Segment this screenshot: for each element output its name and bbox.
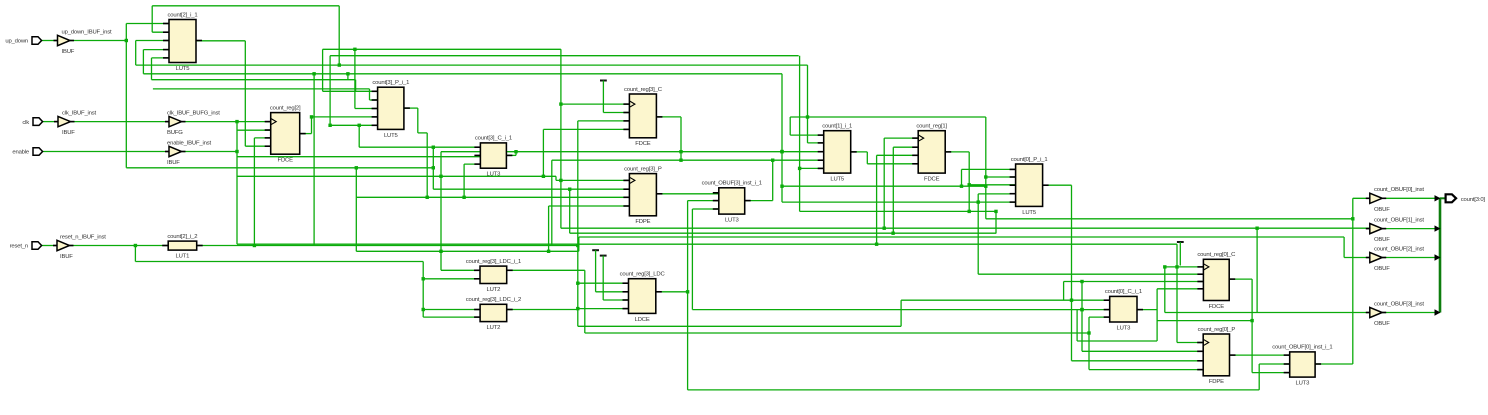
wire to count[3]_P_i_1 pin1	[323, 90, 378, 92]
junction	[798, 167, 801, 170]
LUT2 count_reg[3]_LDC_i_2	[466, 297, 521, 331]
svg-text:count_reg[0]_P: count_reg[0]_P	[1198, 327, 1236, 333]
wire	[1156, 289, 1158, 341]
wire	[354, 49, 356, 108]
const0 tie above LDCE 2	[600, 256, 607, 300]
svg-text:count_OBUF[0]_inst: count_OBUF[0]_inst	[1374, 187, 1424, 193]
wire to LUT2 i_2 pin2	[423, 316, 480, 318]
junction	[346, 72, 349, 75]
wire	[876, 155, 878, 244]
svg-text:LUT2: LUT2	[487, 325, 501, 331]
svg-text:LUT5: LUT5	[1022, 210, 1037, 216]
wire	[329, 56, 331, 126]
junction	[426, 196, 429, 199]
svg-text:FDCE: FDCE	[278, 158, 294, 164]
wire	[680, 117, 682, 160]
wire run y321	[1157, 320, 1252, 322]
junction	[968, 183, 971, 186]
svg-text:enable_IBUF_inst: enable_IBUF_inst	[167, 140, 211, 146]
wire	[985, 117, 987, 219]
wire enable port to IBUF	[42, 151, 169, 153]
junction	[422, 308, 425, 311]
svg-text:OBUF: OBUF	[1374, 237, 1390, 243]
wire	[691, 209, 693, 310]
svg-text:count[0]_C_i_1: count[0]_C_i_1	[1105, 289, 1142, 295]
wire	[555, 176, 557, 180]
junction	[1080, 308, 1083, 311]
svg-text:clk: clk	[22, 120, 29, 126]
wire OBUF3 out	[1382, 312, 1440, 314]
junction	[679, 159, 682, 162]
wire to count_reg[0]_P C	[1177, 342, 1203, 344]
buffer count_OBUF[2]_inst	[1366, 246, 1425, 272]
junction clk	[235, 120, 238, 123]
svg-text:count_reg[3]_LDC_i_1: count_reg[3]_LDC_i_1	[466, 259, 521, 265]
junction	[514, 150, 517, 153]
wire	[584, 270, 586, 333]
wire	[578, 237, 580, 251]
buffer clk_IBUF_BUFG_inst	[165, 110, 220, 136]
wire to count_reg[0]_P pin2	[1082, 350, 1203, 352]
junction	[960, 185, 963, 188]
svg-text:FDPE: FDPE	[635, 219, 650, 225]
wire reset lower run	[135, 261, 423, 263]
svg-text:FDPE: FDPE	[1209, 379, 1224, 385]
wire	[463, 164, 465, 197]
wire OBUF1 out	[1382, 228, 1440, 230]
svg-text:count[1]_i_1: count[1]_i_1	[822, 124, 852, 130]
wire count_reg[2] Q	[300, 133, 312, 135]
svg-text:IBUF: IBUF	[62, 49, 75, 55]
wire count_reg[3]_P Q to LUT3	[656, 193, 718, 195]
wire const to LDCE pin2	[596, 291, 629, 293]
wire to count[3]_P_i_1 pin5	[330, 124, 378, 126]
wire	[432, 147, 434, 189]
wire to count_reg[2] D	[245, 145, 270, 147]
wire long run y219	[986, 218, 1353, 220]
FDCE count_reg[1]	[912, 124, 951, 183]
wire to count_reg[2] CLR	[254, 137, 270, 139]
buffer up_down_IBUF_inst	[54, 29, 113, 55]
junction	[771, 159, 774, 162]
junction	[559, 179, 562, 182]
port enable	[12, 148, 42, 156]
wire	[338, 6, 340, 65]
wire	[253, 138, 255, 246]
buffer count_OBUF[3]_inst	[1366, 301, 1425, 327]
wire	[687, 201, 689, 390]
LUT5 count[3]_P_i_1	[372, 80, 410, 139]
svg-text:IBUF: IBUF	[60, 254, 73, 260]
wire run y117	[790, 116, 986, 118]
port up_down	[5, 37, 41, 45]
wire long run y65	[136, 64, 808, 66]
wire run y152	[441, 151, 824, 153]
wire long run y310	[692, 309, 1109, 311]
wire to count[2]_i_1 pin2	[152, 31, 169, 33]
wire	[781, 74, 783, 202]
wire clk down right	[1176, 244, 1178, 342]
svg-text:OBUF: OBUF	[1374, 266, 1390, 272]
junction	[576, 282, 579, 285]
junction	[235, 150, 238, 153]
wire	[151, 6, 153, 32]
FDCE count_reg[3]_C	[623, 87, 662, 147]
wire	[977, 194, 979, 274]
wire	[440, 152, 442, 271]
wire riser reg1 C	[883, 138, 885, 228]
junction	[353, 48, 356, 51]
FDCE count_reg[2]	[265, 105, 306, 163]
junction	[338, 63, 341, 66]
wire to count_reg[0]_C C	[1165, 266, 1204, 268]
wire	[789, 117, 791, 135]
svg-text:LUT3: LUT3	[725, 218, 740, 224]
svg-text:count_OBUF[3]_inst_i_1: count_OBUF[3]_inst_i_1	[702, 181, 762, 187]
FDPE count_reg[3]_P	[623, 166, 662, 225]
wire count_reg[0]_P Q to LUT pin1	[1230, 354, 1290, 356]
wire count_reg[0]_C Q	[1229, 278, 1252, 280]
wire	[551, 160, 553, 245]
svg-text:enable: enable	[12, 150, 30, 156]
wire	[968, 152, 970, 212]
wire up_down IBUF output	[71, 40, 127, 42]
wire to count[1]_i_1 pin1	[790, 134, 824, 136]
wire run y202	[782, 201, 1016, 203]
wire long run y333	[585, 332, 1089, 334]
junction	[1351, 217, 1354, 220]
wire	[548, 206, 550, 251]
junction	[686, 290, 689, 293]
wire	[358, 125, 360, 147]
junction	[780, 150, 783, 153]
buffer reset_n_IBUF_inst	[53, 234, 106, 260]
svg-text:IBUF: IBUF	[62, 130, 75, 136]
wire	[900, 300, 902, 326]
wire LUT2 i_1 out	[507, 269, 585, 271]
wire to count_reg[1] D	[867, 163, 918, 165]
bus tap arrow	[1435, 309, 1441, 315]
wire to count[3]_C_i_1 pin2	[237, 156, 480, 158]
wire long run y74	[143, 73, 782, 75]
wire const to LDCE pin3	[603, 299, 628, 301]
wire to count[2]_i_1 pin1	[126, 23, 169, 25]
wire count[3]_P_i_1 out	[404, 107, 418, 109]
wire run y341	[1077, 340, 1157, 342]
wire vertical x314	[313, 74, 315, 246]
const0 tie above LDCE	[592, 250, 599, 292]
svg-text:LUT5: LUT5	[830, 177, 845, 183]
LUT3 count_OBUF[0]_inst_i_1	[1272, 345, 1332, 387]
wire enable IBUF out	[183, 151, 238, 153]
wire to count[1]_i_1 pin5	[800, 167, 824, 169]
svg-text:IBUF: IBUF	[167, 160, 180, 166]
port count[3:0]	[1446, 194, 1486, 203]
junction	[968, 210, 971, 213]
junction	[439, 175, 442, 178]
wire count_reg[3]_C Q	[656, 116, 681, 118]
buffer count_OBUF[1]_inst	[1366, 217, 1425, 243]
wire to count[2]_i_1 pin4	[143, 49, 169, 51]
bus tap arrow	[1435, 254, 1441, 260]
wire reset IBUF out	[70, 245, 168, 247]
svg-text:LUT3: LUT3	[1117, 325, 1132, 331]
wire LUT2 i_2 out	[507, 309, 578, 311]
wire to LUT2 i_1 pin2	[423, 278, 480, 280]
wire	[1251, 279, 1253, 373]
wire count[2]_i_2 out run	[197, 245, 578, 247]
wire to count[0]_P_i_1 pin1	[962, 168, 1016, 170]
wire to count[2]_i_1 pin5	[152, 57, 170, 59]
junction	[1080, 280, 1083, 283]
wire	[347, 74, 349, 80]
svg-text:LDCE: LDCE	[635, 317, 650, 323]
wire	[134, 246, 136, 262]
svg-text:FDCE: FDCE	[1209, 304, 1225, 310]
junction	[883, 227, 886, 230]
wire	[151, 58, 153, 80]
wire OBUF0 LUT out	[1315, 363, 1353, 365]
wire	[355, 168, 357, 252]
wire	[418, 132, 427, 134]
svg-text:FDCE: FDCE	[924, 177, 940, 183]
wire up_down port to IBUF	[42, 40, 58, 42]
wire count[1]_i_1 out	[851, 151, 868, 153]
FDPE count_reg[0]_P	[1197, 327, 1235, 385]
wire clk long run	[237, 243, 1177, 245]
svg-text:FDCE: FDCE	[635, 141, 651, 147]
bus count[3:0]	[1439, 198, 1442, 312]
wire to count_reg[3]_P D	[549, 205, 630, 207]
wire	[995, 211, 997, 233]
const0 tie above count_reg[0]_C	[1177, 242, 1184, 266]
junction	[568, 188, 571, 191]
junction	[439, 250, 442, 253]
junction	[1087, 331, 1090, 334]
wire LUT3 out	[745, 200, 773, 202]
svg-text:count_OBUF[1]_inst: count_OBUF[1]_inst	[1374, 217, 1424, 223]
wire to count_reg[0]_P pin3	[1072, 360, 1204, 362]
svg-text:reset_n: reset_n	[10, 244, 28, 250]
junction	[134, 244, 137, 247]
wire to count_reg[0]_C CE	[978, 273, 1203, 275]
wire run y160	[552, 159, 824, 161]
junction	[1163, 265, 1166, 268]
junction	[253, 244, 256, 247]
port clk	[22, 118, 42, 126]
svg-text:count_reg[1]: count_reg[1]	[916, 124, 947, 130]
wire bus to port	[1440, 197, 1446, 199]
svg-text:count[2]_i_2: count[2]_i_2	[167, 234, 197, 240]
wire	[807, 65, 809, 143]
junction	[312, 72, 315, 75]
wire to count_reg[3]_C C	[561, 103, 630, 105]
wire	[542, 129, 544, 176]
junction up_down	[125, 39, 128, 42]
wire to count_reg[0]_C pin3	[1064, 281, 1204, 283]
wire	[569, 189, 571, 233]
wire LDCE Q	[656, 291, 688, 293]
wire	[369, 89, 371, 100]
junction	[432, 166, 435, 169]
wire CLR trunk	[577, 121, 579, 326]
wire	[311, 117, 313, 134]
wire to OBUF0 LUT pin3	[1252, 372, 1290, 374]
wire to OBUF3	[1165, 312, 1370, 314]
svg-text:count_reg[3]_C: count_reg[3]_C	[624, 87, 663, 93]
wire to count[2]_i_1 pin3	[136, 40, 169, 42]
wire long run y237 to OBUF2	[579, 236, 1344, 238]
wire BUFG out to count_reg[2] C	[183, 121, 271, 123]
junction	[547, 250, 550, 253]
wire to count[0]_P_i_1 pin3	[969, 184, 1015, 186]
wire	[426, 133, 428, 197]
LUT3 count[3]_C_i_1	[474, 136, 512, 178]
junction	[1255, 227, 1258, 230]
wire to count_reg[1] CE	[893, 146, 918, 148]
junction	[328, 124, 331, 127]
bus tap arrow	[1435, 195, 1441, 201]
wire	[142, 50, 144, 74]
wire	[1081, 282, 1083, 352]
junction	[875, 243, 878, 246]
wire long run y228 to OBUF1	[561, 227, 1370, 229]
svg-text:OBUF: OBUF	[1374, 321, 1390, 327]
junction	[358, 124, 361, 127]
svg-text:count_reg[3]_P: count_reg[3]_P	[624, 166, 662, 172]
wire run y80	[152, 79, 356, 81]
wire const to count_reg[3]_C CE	[603, 112, 629, 114]
wire to count_reg[3]_P pin3	[356, 196, 629, 198]
svg-text:BUFG: BUFG	[167, 130, 183, 136]
LUT5 count[0]_P_i_1	[1010, 157, 1049, 216]
wire to count_reg[2] CE	[237, 129, 271, 131]
junction	[977, 200, 980, 203]
wire to count[0]_C_i_1 pin1	[901, 299, 1110, 301]
LUT3 count[0]_C_i_1	[1104, 289, 1143, 331]
wire to count[3]_P_i_1 pin3	[355, 108, 378, 110]
junction	[891, 232, 894, 235]
wire	[1256, 228, 1258, 312]
wire to count[0]_C_i_1 pin3	[1089, 316, 1110, 318]
FDCE count_reg[0]_C	[1197, 252, 1236, 310]
junction	[1250, 319, 1253, 322]
wire count[0]_P_i_1 out	[1043, 184, 1072, 186]
wire OBUF0 out	[1382, 197, 1440, 199]
LDCE count_reg[3]_LDC	[620, 272, 666, 323]
buffer enable_IBUF_inst	[165, 140, 211, 166]
svg-text:count[0]_P_i_1: count[0]_P_i_1	[1011, 157, 1048, 163]
junction	[1080, 308, 1083, 311]
junction	[432, 146, 435, 149]
wire to count[1]_i_1 pin2	[808, 142, 824, 144]
buffer clk_IBUF_inst	[54, 110, 97, 136]
svg-text:count_reg[2]: count_reg[2]	[270, 105, 301, 111]
wire run y89	[153, 88, 370, 90]
svg-text:up_down_IBUF_inst: up_down_IBUF_inst	[62, 29, 113, 35]
wire to LUT3 pin2	[688, 200, 719, 202]
wire run y168	[126, 167, 433, 169]
junction	[576, 307, 579, 310]
wire	[1088, 317, 1090, 370]
wire run y251	[356, 250, 579, 252]
svg-text:count[2]_i_1: count[2]_i_1	[168, 12, 198, 18]
wire run y49	[323, 48, 561, 50]
wire bottom long run y390	[688, 389, 1260, 391]
junction	[355, 166, 358, 169]
wire to count[3]_P_i_1 pin2	[370, 99, 378, 101]
wire top run	[152, 5, 339, 7]
wire	[1076, 310, 1078, 341]
wire	[355, 80, 357, 92]
junction	[679, 150, 682, 153]
wire to LUT3 pin3	[692, 208, 718, 210]
svg-text:count_reg[3]_LDC: count_reg[3]_LDC	[620, 272, 666, 278]
wire to count_reg[1] CLR	[877, 154, 919, 156]
wire count[0]_C_i_1 out	[1137, 309, 1157, 311]
wire run y233	[570, 232, 997, 234]
wire to count_reg[3]_P CE	[433, 188, 629, 190]
svg-text:LUT2: LUT2	[487, 287, 501, 293]
svg-text:count[3]_C_i_1: count[3]_C_i_1	[475, 136, 512, 142]
junction	[984, 185, 987, 188]
wire	[1343, 237, 1345, 258]
junction	[984, 175, 987, 178]
junction	[1175, 265, 1178, 268]
wire	[135, 41, 137, 66]
svg-text:count_OBUF[2]_inst: count_OBUF[2]_inst	[1374, 246, 1424, 252]
const0 tie above count_reg[3]_C	[600, 81, 607, 113]
wire clk vertical	[236, 122, 238, 245]
wire count_OBUF[0] riser	[1352, 198, 1354, 364]
LUT5 count[2]_i_1	[163, 12, 202, 72]
svg-text:LUT3: LUT3	[487, 172, 502, 178]
wire to count_reg[3]_C D	[543, 128, 629, 130]
wire	[422, 262, 424, 318]
junction	[462, 196, 465, 199]
wire	[1258, 364, 1260, 390]
junction	[422, 277, 425, 280]
svg-text:OBUF: OBUF	[1374, 207, 1390, 213]
wire	[1071, 185, 1073, 361]
wire	[892, 147, 894, 233]
wire	[417, 108, 419, 133]
svg-text:LUT5: LUT5	[384, 133, 399, 139]
svg-text:up_down: up_down	[5, 39, 28, 45]
wire to count[0]_P_i_1 pin2	[986, 176, 1016, 178]
wire run y211	[800, 210, 996, 212]
junction	[780, 150, 783, 153]
LUT1 count[2]_i_2	[162, 234, 203, 260]
bus tap arrow	[1435, 225, 1441, 231]
wire run y186	[782, 185, 986, 187]
LUT2 count_reg[3]_LDC_i_1	[466, 259, 521, 293]
wire up_down vertical trunk	[125, 24, 127, 168]
wire to LDCE pin1	[578, 282, 629, 284]
wire to count_reg[1] C	[884, 137, 918, 139]
svg-text:count_reg[0]_C: count_reg[0]_C	[1197, 252, 1236, 258]
buffer count_OBUF[0]_inst	[1366, 187, 1425, 213]
wire	[1164, 267, 1166, 313]
wire to OBUF0 LUT pin2	[1259, 363, 1290, 365]
svg-text:LUT3: LUT3	[1296, 381, 1311, 387]
wire to count_reg[0]_P pin4	[1089, 369, 1203, 371]
svg-text:clk_IBUF_BUFG_inst: clk_IBUF_BUFG_inst	[167, 110, 220, 116]
junction	[542, 175, 545, 178]
junction	[780, 185, 783, 188]
svg-text:LUT5: LUT5	[176, 66, 191, 72]
wire to LUT2 i_2 pin1	[423, 309, 480, 311]
